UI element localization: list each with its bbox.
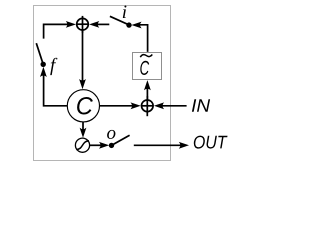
label i [123,6,127,19]
wire: i gate into X1 (arrow) [89,21,109,28]
adder X2 (right plus) [141,96,153,116]
wire: o gate to OUT [134,142,189,149]
gate switch o (contact dot + lever) [109,135,130,148]
gate switch f (lever + contact dot) [36,43,46,67]
wire: IN into X2 [154,102,187,109]
wire: f gate up and into top adder X1 [44,21,76,39]
label o [107,130,115,139]
wire: X2 up into Ctilde box [144,80,151,99]
wire: cell C left and up into f gate (recurrent loop) [40,67,67,106]
label IN [192,99,210,112]
wire: X1 down into cell C [79,30,86,89]
wire: cell C down into squash [80,122,87,138]
gate switch i (lever + contact dot) [110,16,132,28]
cell C (memory circle) [67,90,99,122]
adder X1 (top plus) [77,16,89,33]
squash function circle (sigmoid) [75,138,89,152]
label OUT [194,136,228,149]
wire: cell C into X2 [100,102,141,109]
wire: squash into o gate [90,142,109,149]
box Ctilde (candidate) [133,53,162,80]
wire: Ctilde box up and into i gate [131,22,147,52]
label f [50,58,57,75]
